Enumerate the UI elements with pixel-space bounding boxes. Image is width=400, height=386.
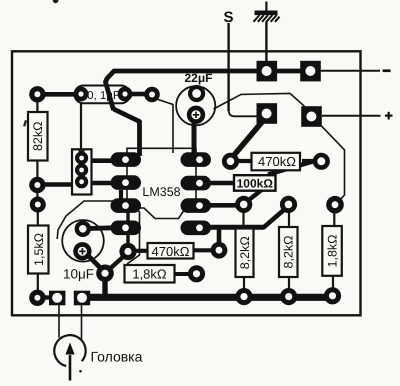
svg-text:1,8kΩ: 1,8kΩ <box>132 267 167 282</box>
svg-text:Головка: Головка <box>91 349 143 365</box>
svg-text:LM358: LM358 <box>142 185 180 199</box>
svg-text:10μF: 10μF <box>63 267 94 282</box>
svg-text:22μF: 22μF <box>184 71 212 85</box>
svg-text:0, 1μF: 0, 1μF <box>87 90 120 102</box>
svg-text:470kΩ: 470kΩ <box>152 244 190 259</box>
svg-text:100kΩ: 100kΩ <box>237 177 274 191</box>
svg-text:S: S <box>223 9 233 26</box>
svg-text:8,2kΩ: 8,2kΩ <box>238 236 252 269</box>
svg-text:470kΩ: 470kΩ <box>258 154 296 169</box>
svg-text:1,5kΩ: 1,5kΩ <box>32 233 46 266</box>
svg-text:1,8kΩ: 1,8kΩ <box>326 235 340 268</box>
svg-text:8,2kΩ: 8,2kΩ <box>282 236 296 269</box>
svg-text:82kΩ: 82kΩ <box>31 122 45 152</box>
